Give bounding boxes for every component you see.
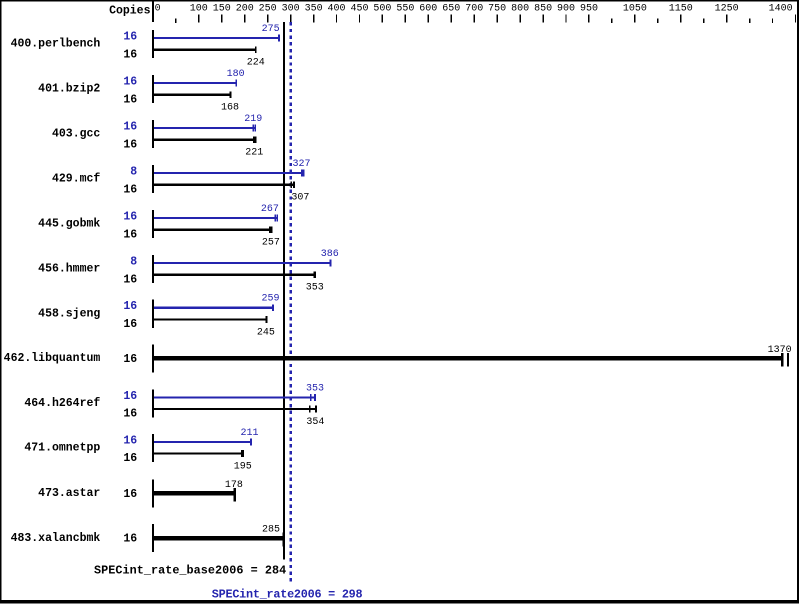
row 458.sjeng <box>38 294 279 339</box>
svg-text:16: 16 <box>123 408 137 421</box>
svg-text:458.sjeng: 458.sjeng <box>38 307 100 320</box>
svg-text:353: 353 <box>306 283 324 294</box>
base bar cap 403.gcc <box>253 136 257 143</box>
axis tee 483.xalancbmk <box>152 524 154 552</box>
bar base 403.gcc value 221 <box>154 139 256 141</box>
base bar cap 429.mcf <box>293 181 295 188</box>
axis major tick 1150 <box>680 15 681 23</box>
base bar cap 464.h264ref <box>309 406 311 413</box>
axis major tick 150 <box>221 15 222 23</box>
axis tee 458.sjeng <box>152 300 154 328</box>
axis major tick 750 <box>496 15 497 23</box>
bar peak 458.sjeng value 259 <box>154 307 274 309</box>
axis major tick 600 <box>428 15 429 23</box>
svg-text:250: 250 <box>259 3 277 14</box>
row 464.h264ref <box>24 383 324 428</box>
svg-text:Copies: Copies <box>109 5 151 18</box>
base bar cap 445.gobmk <box>271 226 273 233</box>
svg-text:456.hmmer: 456.hmmer <box>38 263 100 276</box>
svg-text:16: 16 <box>123 318 137 331</box>
peak bar cap 464.h264ref <box>314 394 316 401</box>
peak bar cap 464.h264ref <box>310 394 312 401</box>
axis major tick 550 <box>405 15 406 23</box>
svg-text:16: 16 <box>123 300 137 313</box>
svg-text:354: 354 <box>306 417 324 428</box>
row 401.bzip2 <box>38 69 244 114</box>
svg-text:16: 16 <box>123 75 137 88</box>
svg-text:1370: 1370 <box>768 345 792 356</box>
svg-text:429.mcf: 429.mcf <box>52 173 100 186</box>
bar base 456.hmmer value 353 <box>154 274 316 276</box>
axis major tick 1050 <box>634 15 635 23</box>
axis major tick 350 <box>313 15 314 23</box>
axis major tick 1250 <box>726 15 727 23</box>
svg-text:16: 16 <box>123 434 137 447</box>
svg-text:100: 100 <box>190 3 208 14</box>
peak bar cap 445.gobmk <box>275 215 277 222</box>
axis minor tick 1100 <box>657 19 658 24</box>
svg-text:16: 16 <box>123 138 137 151</box>
svg-text:700: 700 <box>465 3 483 14</box>
axis minor tick 1000 <box>611 19 612 24</box>
svg-text:353: 353 <box>306 383 324 394</box>
svg-text:500: 500 <box>373 3 391 14</box>
svg-text:471.omnetpp: 471.omnetpp <box>24 442 100 455</box>
peak bar cap 458.sjeng <box>272 304 274 311</box>
base bar cap 445.gobmk <box>269 226 271 233</box>
base bar cap 400.perlbench <box>255 46 257 53</box>
svg-text:245: 245 <box>257 327 275 338</box>
bar peak 403.gcc value 219 <box>154 127 256 129</box>
axis vertical line at 0 <box>152 0 154 22</box>
peak bar cap 403.gcc <box>253 125 255 132</box>
svg-text:473.astar: 473.astar <box>38 487 100 500</box>
bar peak 445.gobmk value 267 <box>154 217 278 219</box>
svg-text:16: 16 <box>123 390 137 403</box>
svg-text:221: 221 <box>245 148 263 159</box>
svg-text:16: 16 <box>123 210 137 223</box>
axis tee 445.gobmk <box>152 210 154 238</box>
base bar cap 456.hmmer <box>314 271 316 278</box>
svg-text:550: 550 <box>396 3 414 14</box>
axis minor tick 1200 <box>703 19 704 24</box>
bar base 429.mcf value 307 <box>154 184 295 186</box>
bar base 471.omnetpp value 195 <box>154 453 244 455</box>
svg-text:16: 16 <box>123 48 137 61</box>
svg-text:350: 350 <box>305 3 323 14</box>
axis tee 473.astar <box>152 479 154 507</box>
bar base 400.perlbench value 224 <box>154 49 257 51</box>
bar peak 429.mcf value 327 <box>154 172 304 174</box>
base bar cap 471.omnetpp <box>241 450 244 457</box>
svg-text:16: 16 <box>123 533 137 546</box>
svg-text:16: 16 <box>123 488 137 501</box>
peak bar cap 429.mcf <box>301 170 304 177</box>
svg-text:16: 16 <box>123 273 137 286</box>
svg-text:16: 16 <box>123 183 137 196</box>
svg-text:8: 8 <box>130 165 137 178</box>
svg-text:900: 900 <box>557 3 575 14</box>
axis major tick 650 <box>451 15 452 23</box>
svg-text:300: 300 <box>282 3 300 14</box>
svg-text:16: 16 <box>123 452 137 465</box>
svg-text:SPECint_rate_base2006 = 284: SPECint_rate_base2006 = 284 <box>94 563 286 577</box>
bar base+peak 473.astar value 178 <box>154 491 236 496</box>
bar peak 400.perlbench value 275 <box>154 37 280 39</box>
row 445.gobmk <box>38 204 280 249</box>
bar peak 456.hmmer value 386 <box>154 262 331 264</box>
row 400.perlbench <box>11 24 280 69</box>
axis major tick 400 <box>336 15 337 23</box>
svg-text:257: 257 <box>262 238 280 249</box>
bar base 458.sjeng value 245 <box>154 318 267 320</box>
svg-text:1150: 1150 <box>669 3 693 14</box>
axis tee 456.hmmer <box>152 255 154 283</box>
axis tee 462.libquantum <box>152 344 154 372</box>
axis major tick 800 <box>519 15 520 23</box>
svg-text:450: 450 <box>350 3 368 14</box>
axis tee 471.omnetpp <box>152 434 154 462</box>
svg-text:16: 16 <box>123 30 137 43</box>
axis tee 403.gcc <box>152 120 154 148</box>
frame left border <box>0 0 2 603</box>
peak bar cap 471.omnetpp <box>250 438 252 445</box>
svg-text:259: 259 <box>261 294 279 305</box>
svg-text:275: 275 <box>262 24 280 35</box>
svg-text:850: 850 <box>534 3 552 14</box>
svg-text:483.xalancbmk: 483.xalancbmk <box>11 532 101 545</box>
frame right border <box>797 0 799 603</box>
row 403.gcc <box>52 114 263 159</box>
svg-text:285: 285 <box>262 525 280 536</box>
svg-text:16: 16 <box>123 93 137 106</box>
svg-text:650: 650 <box>442 3 460 14</box>
base bar cap 401.bzip2 <box>229 91 231 98</box>
axis major tick 100 <box>198 15 199 23</box>
svg-text:195: 195 <box>234 462 252 473</box>
svg-text:1050: 1050 <box>623 3 647 14</box>
svg-text:307: 307 <box>291 193 309 204</box>
svg-text:1250: 1250 <box>715 3 739 14</box>
svg-text:800: 800 <box>511 3 529 14</box>
svg-text:1400: 1400 <box>769 3 793 14</box>
bar peak 471.omnetpp value 211 <box>154 441 252 443</box>
axis tee 400.perlbench <box>152 30 154 58</box>
axis major tick 850 <box>542 15 543 23</box>
axis major tick 200 <box>244 15 245 23</box>
svg-text:327: 327 <box>292 159 310 170</box>
base bar cap 464.h264ref <box>315 406 317 413</box>
svg-text:150: 150 <box>213 3 231 14</box>
base bar cap 458.sjeng <box>266 316 268 323</box>
svg-text:178: 178 <box>225 480 243 491</box>
axis major tick 500 <box>382 15 383 23</box>
bar base 401.bzip2 value 168 <box>154 94 231 96</box>
row 483.xalancbmk <box>11 524 285 552</box>
bar base+peak 462.libquantum value 1370 <box>154 356 783 361</box>
row 429.mcf <box>52 159 311 204</box>
bar end cap 483.xalancbmk <box>283 533 285 547</box>
svg-text:16: 16 <box>123 353 137 366</box>
axis tee 401.bzip2 <box>152 75 154 103</box>
svg-text:750: 750 <box>488 3 506 14</box>
axis major tick 700 <box>474 15 475 23</box>
row 462.libquantum <box>4 344 792 372</box>
svg-text:200: 200 <box>236 3 254 14</box>
svg-text:400.perlbench: 400.perlbench <box>11 38 101 51</box>
svg-text:464.h264ref: 464.h264ref <box>24 397 100 410</box>
svg-text:SPECint_rate2006 = 298: SPECint_rate2006 = 298 <box>212 588 363 602</box>
svg-text:400: 400 <box>327 3 345 14</box>
svg-text:16: 16 <box>123 120 137 133</box>
axis tee 464.h264ref <box>152 389 154 417</box>
axis minor tick 50 <box>175 19 176 24</box>
peak bar cap 403.gcc <box>255 125 257 132</box>
base bar cap 429.mcf <box>291 181 293 188</box>
bar base 445.gobmk value 257 <box>154 229 273 231</box>
svg-text:168: 168 <box>221 103 239 114</box>
axis major tick 450 <box>359 15 360 23</box>
peak bar cap 456.hmmer <box>330 260 332 267</box>
svg-text:401.bzip2: 401.bzip2 <box>38 83 100 96</box>
bar end cap 462.libquantum <box>787 353 789 367</box>
bar peak 401.bzip2 value 180 <box>154 82 237 84</box>
svg-text:16: 16 <box>123 228 137 241</box>
svg-text:267: 267 <box>261 204 279 215</box>
svg-text:8: 8 <box>130 255 137 268</box>
bar end cap 473.astar <box>234 488 236 502</box>
peak bar cap 445.gobmk <box>276 215 278 222</box>
peak bar cap 401.bzip2 <box>235 80 237 87</box>
axis tee 429.mcf <box>152 165 154 193</box>
axis major tick 1400 <box>795 15 796 23</box>
bar peak 464.h264ref value 353 <box>154 396 316 398</box>
svg-text:386: 386 <box>321 249 339 260</box>
svg-text:0: 0 <box>155 3 161 14</box>
bar end cap 462.libquantum <box>781 353 783 367</box>
axis minor tick 1300 <box>749 19 750 24</box>
svg-text:403.gcc: 403.gcc <box>52 128 100 141</box>
frame top border <box>0 0 799 2</box>
bar base 464.h264ref value 354 <box>154 408 317 410</box>
row 456.hmmer <box>38 249 339 294</box>
axis minor tick 1350 <box>772 19 773 24</box>
svg-text:224: 224 <box>247 58 265 69</box>
frame bottom border <box>0 600 799 603</box>
bar base+peak 483.xalancbmk value 285 <box>154 536 285 541</box>
axis major tick 300 <box>290 15 291 23</box>
SPECint_rate_base2006 = 284 reference line <box>283 22 285 560</box>
svg-text:462.libquantum: 462.libquantum <box>4 352 101 365</box>
axis major tick 250 <box>267 15 268 23</box>
svg-text:600: 600 <box>419 3 437 14</box>
svg-text:219: 219 <box>244 114 262 125</box>
svg-text:445.gobmk: 445.gobmk <box>38 218 100 231</box>
axis major tick 900 <box>565 15 566 23</box>
svg-text:180: 180 <box>227 69 245 80</box>
svg-text:950: 950 <box>580 3 598 14</box>
SPECint_rate2006 = 298 reference line (dotted) <box>290 22 292 584</box>
svg-text:211: 211 <box>240 428 258 439</box>
row 471.omnetpp <box>24 428 258 473</box>
peak bar cap 400.perlbench <box>278 35 280 42</box>
row 473.astar <box>38 479 243 507</box>
axis major tick 950 <box>588 15 589 23</box>
